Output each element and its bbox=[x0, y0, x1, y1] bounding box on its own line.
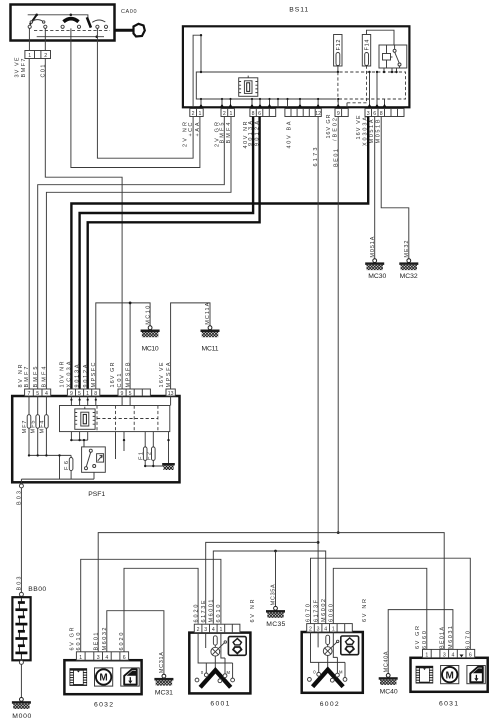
fuse MF5 bbox=[37, 396, 39, 455]
svg-text:6060: 6060 bbox=[329, 604, 335, 622]
6001 internal wires bbox=[198, 633, 233, 679]
PSF1 pin B stubs with dots bbox=[71, 396, 170, 406]
ground MC40 bbox=[379, 674, 398, 685]
wire BMF5 (BS11 to PSF1.A5) bbox=[38, 117, 225, 390]
svg-text:2: 2 bbox=[44, 53, 47, 59]
svg-text:ME32: ME32 bbox=[404, 241, 410, 258]
svg-text:MC35: MC35 bbox=[266, 621, 285, 628]
ground MC11 bbox=[201, 326, 220, 337]
svg-text:16V GR: 16V GR bbox=[326, 114, 332, 138]
bus top junction dots bbox=[368, 71, 370, 73]
junction dot riser top bbox=[200, 34, 202, 36]
wire MC35A (to MC35) bbox=[275, 551, 277, 606]
fuse F12 bbox=[334, 35, 342, 104]
svg-text:6010: 6010 bbox=[216, 605, 222, 623]
fuse F2 bbox=[152, 432, 154, 466]
fuse MF4 bbox=[45, 396, 47, 455]
ground MC35 bbox=[266, 606, 285, 617]
svg-text:6010: 6010 bbox=[76, 633, 82, 651]
wire MPSFA (PSF1.D13 to MC11) bbox=[171, 303, 210, 389]
svg-text:B03: B03 bbox=[17, 491, 23, 505]
junction dot sw1 feed bbox=[35, 14, 38, 17]
svg-text:6: 6 bbox=[258, 111, 261, 117]
6001 box bbox=[189, 633, 250, 694]
connector 16V VE (pins 3,6,8) bbox=[365, 109, 404, 117]
svg-text:CA00: CA00 bbox=[121, 9, 137, 15]
wire C01 (CA00.2 to PSF1.C9) bbox=[45, 59, 122, 390]
svg-text:PSF1: PSF1 bbox=[88, 491, 105, 498]
svg-text:F12: F12 bbox=[336, 40, 342, 51]
relay in BS11 bbox=[370, 45, 407, 107]
svg-text:6002: 6002 bbox=[320, 701, 339, 708]
svg-text:2: 2 bbox=[197, 627, 200, 633]
svg-text:16V GR: 16V GR bbox=[110, 362, 116, 387]
connector 40V NR (pins 8,6) bbox=[250, 109, 276, 117]
battery box bbox=[12, 597, 30, 660]
PSF1 connector A (7,5,4) bbox=[25, 389, 51, 396]
6032 icon electronics bbox=[70, 668, 88, 686]
svg-text:16V VE: 16V VE bbox=[159, 362, 165, 387]
svg-text:1: 1 bbox=[198, 111, 201, 117]
PSF1 connector D (13) bbox=[166, 389, 175, 396]
BS11 internal +CC riser bbox=[193, 35, 201, 107]
6032 icon window lift bbox=[121, 668, 139, 686]
wire BE01 horizontal (6032.3 to 6031.3) bbox=[98, 533, 444, 652]
svg-text:M: M bbox=[99, 673, 107, 684]
BS11 bottom connectors bbox=[190, 109, 404, 118]
svg-text:F1: F1 bbox=[138, 452, 144, 460]
6001 lamp bbox=[211, 647, 220, 656]
svg-text:MF7: MF7 bbox=[22, 421, 28, 434]
svg-text:3: 3 bbox=[367, 111, 370, 117]
bus bottom junction dots and pin stubs bbox=[200, 98, 385, 107]
svg-text:M6031: M6031 bbox=[448, 626, 454, 649]
connector 40V BA (pin 12) bbox=[285, 109, 321, 117]
svg-text:MPSFA: MPSFA bbox=[166, 362, 172, 387]
svg-text:6: 6 bbox=[123, 655, 126, 661]
connector 16V GR (pin 9) bbox=[335, 109, 348, 117]
wire BMF7 (CA00.1 to PSF1.A7) bbox=[28, 59, 30, 390]
switch S3 contacts bbox=[96, 25, 99, 28]
fuse F1 bbox=[144, 432, 146, 466]
internal lower bus bbox=[37, 36, 104, 38]
wire 9013A thick (BS11 to PSF1.B5) bbox=[80, 117, 254, 390]
key head bbox=[134, 24, 145, 37]
wire MPSFC (PSF1.B8 to MC10) bbox=[96, 303, 150, 389]
fuse MF7 bbox=[28, 396, 30, 455]
switch S1 contacts bbox=[28, 25, 31, 28]
wire MPSFB (PSF1.C5 tee) bbox=[129, 303, 131, 389]
junction BE01 bbox=[337, 531, 340, 534]
svg-text:6: 6 bbox=[373, 111, 376, 117]
junction 6173 tee bbox=[317, 541, 320, 544]
svg-text:8: 8 bbox=[380, 111, 383, 117]
wire M051A (BS11.6 to MC30) bbox=[374, 117, 376, 259]
svg-text:6020: 6020 bbox=[193, 605, 199, 623]
PSF1 connector C (9,5) bbox=[118, 389, 150, 396]
svg-text:M: M bbox=[227, 670, 231, 675]
6032 icon motor bbox=[95, 668, 113, 686]
fuse box BS11 bbox=[183, 7, 410, 108]
svg-text:F2: F2 bbox=[146, 452, 152, 460]
svg-text:6001: 6001 bbox=[210, 701, 229, 708]
wire +CC (CA00 to BS11 2V NR pin2) bbox=[97, 41, 193, 159]
wire 6020 (6032.6 to 6001.2) bbox=[124, 568, 198, 652]
BS11 box bbox=[183, 26, 410, 107]
svg-text:6070: 6070 bbox=[306, 604, 312, 622]
svg-text:BB00: BB00 bbox=[28, 586, 46, 593]
6001 chevron contact bbox=[200, 670, 231, 687]
wire 6173 (BS11.12 to 6002.3) bbox=[317, 117, 319, 624]
svg-text:C01: C01 bbox=[117, 374, 123, 388]
6031 keying mark bbox=[460, 655, 464, 658]
switch S3 arc bbox=[92, 20, 105, 22]
svg-text:F14: F14 bbox=[365, 40, 371, 51]
wire M6032 (6032.4 to MC31) bbox=[107, 611, 164, 674]
svg-text:3: 3 bbox=[204, 627, 207, 633]
connector 2V NR (pins 2,1) bbox=[190, 109, 203, 117]
svg-text:4: 4 bbox=[212, 627, 215, 633]
wire 6070 (6002.2 to 6031.6) bbox=[311, 558, 471, 651]
svg-text:2: 2 bbox=[192, 111, 195, 117]
BS11 internal connector icon bbox=[239, 76, 258, 97]
ground MC10 bbox=[141, 326, 160, 337]
svg-text:MC31A: MC31A bbox=[159, 652, 165, 673]
svg-text:1: 1 bbox=[28, 53, 31, 59]
BS11 internal bus rectangle (solid part) bbox=[196, 72, 334, 99]
6032 box bbox=[64, 660, 141, 694]
svg-text:M051A: M051A bbox=[370, 236, 376, 257]
pin junction triangles on bottom edge bbox=[199, 104, 387, 108]
svg-text:16V VE: 16V VE bbox=[356, 115, 362, 139]
junction MC35A bbox=[274, 550, 277, 553]
PSF1 box bbox=[12, 396, 179, 482]
svg-text:1: 1 bbox=[219, 627, 222, 633]
key shaft bbox=[115, 29, 134, 32]
PSF1 inner connector icon bbox=[75, 407, 95, 430]
svg-text:MC40A: MC40A bbox=[383, 651, 389, 672]
wire BE01 vertical (BS11.9) bbox=[337, 117, 339, 533]
svg-text:BE01A: BE01A bbox=[439, 627, 445, 649]
connector 2V GR (pins 2,1) bbox=[221, 109, 234, 117]
CA00 internal top bus bbox=[28, 15, 88, 20]
wire M051B / ME32 (BS11.8 to MC32) bbox=[381, 117, 409, 259]
svg-text:1: 1 bbox=[230, 111, 233, 117]
CA00 box bbox=[11, 5, 115, 41]
ground MC31 bbox=[154, 674, 173, 685]
svg-text:MF5: MF5 bbox=[31, 421, 37, 434]
wire M6001/M6002 (6001.4 to 6002.4) bbox=[213, 551, 325, 624]
svg-text:BS11: BS11 bbox=[289, 7, 308, 14]
MF bus bbox=[21, 455, 94, 479]
battery top bubble bbox=[19, 592, 23, 596]
wire 6010 (6032.1 to 6001.1) bbox=[81, 559, 221, 652]
switch S2 thick arc bbox=[64, 19, 79, 22]
svg-text:MC32: MC32 bbox=[400, 273, 418, 280]
junction dot riser bottom bbox=[200, 71, 202, 73]
svg-text:B03: B03 bbox=[17, 577, 23, 591]
battery bottom bubble bbox=[19, 660, 23, 664]
svg-text:M6001: M6001 bbox=[209, 600, 215, 623]
svg-text:M6032: M6032 bbox=[102, 628, 108, 651]
6001 lamp resistor bbox=[213, 636, 217, 645]
svg-text:MF4: MF4 bbox=[39, 421, 45, 434]
svg-text:M051A: M051A bbox=[369, 119, 375, 143]
svg-text:M000: M000 bbox=[12, 713, 31, 720]
wire 6060 (6002.1 to 6031.1) bbox=[333, 568, 427, 651]
ignition switch CA00 bbox=[11, 5, 145, 41]
svg-text:MC30: MC30 bbox=[368, 273, 386, 280]
svg-text:4: 4 bbox=[105, 655, 108, 661]
connector C01 of CA00 (2-way) bbox=[25, 41, 51, 60]
ground MC30 bbox=[365, 259, 384, 270]
wire M6031 (6031.4 to MC40) bbox=[388, 610, 453, 674]
switch S1 arc bbox=[32, 20, 44, 22]
mechanical linkage dashed bbox=[34, 30, 110, 32]
PSF1 internal ground bbox=[168, 432, 170, 463]
svg-text:6070: 6070 bbox=[465, 631, 471, 649]
svg-text:6031: 6031 bbox=[439, 701, 458, 708]
stubs box to connector bbox=[29, 41, 45, 51]
svg-text:8: 8 bbox=[252, 111, 255, 117]
switch S2 contacts bbox=[61, 25, 64, 28]
ground M000 bbox=[12, 698, 31, 709]
wire +AA (CA00 to BS11 2V NR pin1) bbox=[71, 41, 200, 168]
wire BMF4 (BS11 to PSF1.A4) bbox=[46, 117, 231, 390]
wire battery to M000 bbox=[20, 664, 22, 697]
6001 contact circles bbox=[195, 678, 199, 682]
PSF1 C-pin hang wires bbox=[116, 432, 125, 459]
svg-text:MC11A: MC11A bbox=[205, 302, 211, 324]
PSF1 relay bbox=[70, 432, 105, 480]
svg-text:3: 3 bbox=[97, 655, 100, 661]
svg-text:MC11: MC11 bbox=[202, 346, 219, 353]
wire X0303A thick (BS11.3 to PSF1.B9) bbox=[71, 117, 368, 390]
svg-text:MC40: MC40 bbox=[380, 689, 398, 696]
svg-text:BMF7: BMF7 bbox=[21, 59, 27, 78]
fuse F6 bbox=[69, 458, 73, 471]
svg-text:MC10: MC10 bbox=[142, 346, 159, 353]
svg-text:6060: 6060 bbox=[422, 631, 428, 649]
svg-text:MPSFC: MPSFC bbox=[91, 362, 97, 387]
battery cells bbox=[15, 603, 27, 653]
svg-text:MC35A: MC35A bbox=[271, 584, 277, 605]
junction MPSFB bbox=[129, 302, 132, 305]
junction dot sw2 feed bbox=[70, 14, 73, 17]
PSF1 connector B (9,5,1,8) bbox=[67, 389, 99, 396]
svg-text:2: 2 bbox=[223, 111, 226, 117]
BS11 internal bus rectangle (dashed part) bbox=[334, 72, 406, 99]
wire 6173E (tee to 6001.3) bbox=[206, 542, 318, 623]
svg-text:3V VE: 3V VE bbox=[15, 57, 21, 77]
svg-text:6032: 6032 bbox=[94, 702, 113, 709]
B03 exit bubble bbox=[20, 479, 22, 484]
svg-text:M051B: M051B bbox=[376, 119, 382, 143]
svg-text:9: 9 bbox=[337, 111, 340, 117]
6001 connector (2,3,4,1) bbox=[194, 624, 240, 632]
svg-text:10V NR: 10V NR bbox=[59, 361, 65, 387]
internal pin wires bbox=[29, 28, 97, 40]
svg-text:6020: 6020 bbox=[119, 633, 125, 651]
ground MC32 bbox=[399, 259, 418, 270]
fuse F14 bbox=[347, 30, 394, 107]
6001 rocker buttons bbox=[228, 637, 246, 656]
svg-text:12: 12 bbox=[315, 111, 321, 117]
switch S1 lever bbox=[30, 15, 37, 25]
switch S3 thick lever bbox=[87, 17, 91, 27]
svg-text:MC10: MC10 bbox=[145, 306, 151, 325]
wire B03 (PSF1 to BB00) bbox=[20, 488, 22, 593]
junction dot lower bus bbox=[96, 35, 99, 38]
svg-text:1: 1 bbox=[79, 655, 82, 661]
wire 9012A thick (BS11 to PSF1.B1) bbox=[88, 117, 260, 390]
6032 connector (1,3,4,6) bbox=[76, 652, 128, 660]
svg-text:MPSFB: MPSFB bbox=[125, 362, 131, 387]
PSF1 inner rect bbox=[60, 406, 170, 432]
svg-text:M6002: M6002 bbox=[321, 599, 327, 622]
svg-text:MC31: MC31 bbox=[155, 690, 173, 697]
